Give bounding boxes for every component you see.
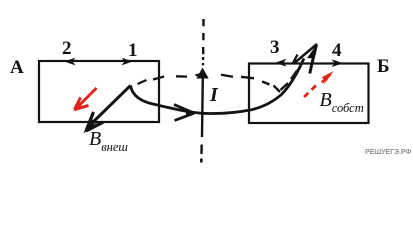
field line: dashed up-swing into loop B (explicit dashes) bbox=[281, 55, 298, 91]
B_sobst red dashed arrow in loop B bbox=[304, 83, 319, 98]
big arrowhead of field-line arrow in loop B: long upper barb bbox=[295, 44, 317, 63]
label 3 bbox=[270, 37, 280, 59]
arrow 4 (right-pointing) on loop B top edge bbox=[332, 59, 344, 67]
B_vnesh arrowhead bbox=[86, 112, 94, 131]
label A bbox=[10, 57, 24, 79]
label B (Cyrillic Be) bbox=[377, 56, 390, 78]
field line: solid bottom arc sweeping up into loop B bbox=[131, 59, 305, 114]
wire dashes below bbox=[200, 145, 203, 155]
label B_sobst bbox=[320, 89, 364, 116]
label 1 bbox=[128, 40, 138, 62]
label 4 bbox=[332, 40, 342, 62]
arrowhead on bottom arc (pointing right) bbox=[174, 105, 194, 121]
wire solid middle segment bbox=[201, 78, 204, 137]
label I (current) bbox=[210, 84, 218, 107]
label B_vnesh bbox=[89, 128, 128, 155]
wire current direction arrowhead (up) bbox=[196, 68, 208, 79]
B_vnesh black arrow in loop A bbox=[89, 86, 131, 127]
wire with current I: dashed above bbox=[202, 19, 205, 65]
B_vnesh arrow shaft in loop B (near-vertical) bbox=[310, 45, 317, 74]
field line: dashed top arc of ellipse (explicit dashes) bbox=[138, 75, 281, 92]
arrow 2 (left-pointing) on loop A top edge bbox=[64, 58, 76, 66]
loop A rectangle bbox=[39, 61, 159, 122]
arrow 1 (right-pointing) on loop A top edge bbox=[122, 58, 133, 66]
big arrowhead filled body bbox=[307, 44, 318, 59]
arrow 3 (left-pointing) on loop B top edge bbox=[275, 59, 287, 67]
loop B rectangle bbox=[249, 64, 369, 124]
watermark bbox=[365, 149, 411, 156]
label 2 bbox=[62, 38, 72, 60]
red arrow in loop A bbox=[79, 88, 97, 106]
